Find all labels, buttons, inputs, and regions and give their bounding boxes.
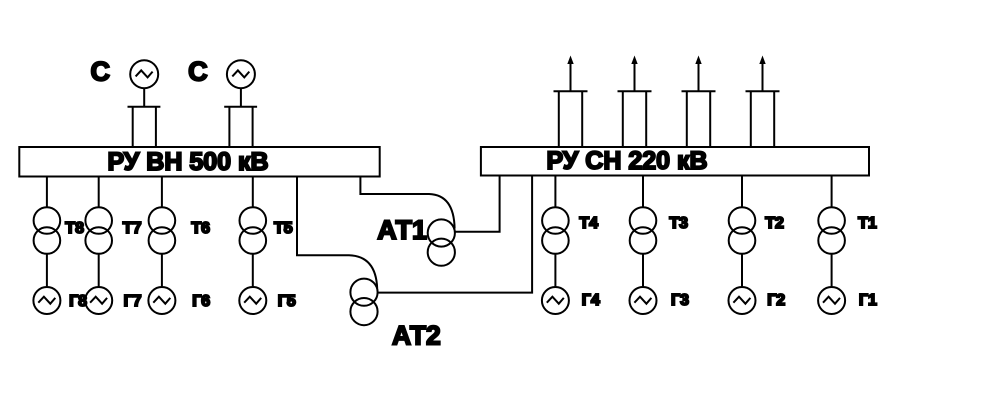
label Г4 bbox=[582, 292, 600, 309]
label Г1 bbox=[859, 292, 877, 309]
label Г8 bbox=[69, 293, 87, 310]
label Т7 bbox=[123, 220, 142, 237]
transformer Т4 (two-winding) bbox=[542, 207, 569, 254]
wire: transformer Т1 to generator Г1 bbox=[831, 254, 833, 288]
outgoing 220 kV line 1: bay frame bbox=[554, 91, 588, 148]
svg-text:Т4: Т4 bbox=[579, 215, 598, 232]
svg-text:С: С bbox=[91, 57, 111, 87]
wire: left bus to autotransformer АТ1 bbox=[360, 177, 454, 229]
generator Г8 circle bbox=[33, 287, 60, 314]
wire: transformer Т4 to generator Г4 bbox=[554, 254, 556, 288]
autotransformer АТ2 (two circles) bbox=[350, 279, 377, 326]
label Г6 bbox=[192, 293, 210, 310]
outgoing 220 kV line 3: bay frame bbox=[682, 91, 716, 148]
wire: transformer Т5 to generator Г5 bbox=[252, 254, 254, 288]
wire: outgoing line 3 with arrow bbox=[695, 56, 701, 92]
svg-text:АТ2: АТ2 bbox=[392, 321, 441, 351]
svg-text:Т5: Т5 bbox=[274, 220, 293, 237]
generator Г4 circle bbox=[542, 287, 569, 314]
label Г2 bbox=[767, 292, 785, 309]
wire: bus to transformer Т5 bbox=[252, 177, 254, 208]
wire: bus to transformer Т3 bbox=[642, 176, 644, 208]
bus РУ ВН 500 кВ (left 500 kV busbar) bbox=[19, 147, 379, 177]
wire: transformer Т8 to generator Г8 bbox=[46, 254, 48, 288]
outgoing 220 kV line 2: bay frame bbox=[618, 91, 652, 148]
transformer Т7 (two-winding) bbox=[85, 207, 112, 254]
svg-text:Т6: Т6 bbox=[191, 220, 210, 237]
system source C2 bay: frame to bus bbox=[224, 107, 257, 148]
generator Г2 circle bbox=[729, 287, 756, 314]
generator Г6 circle bbox=[148, 287, 175, 314]
transformer Т5 (two-winding) bbox=[240, 207, 267, 254]
wire: outgoing line 2 with arrow bbox=[631, 56, 637, 92]
wire: autotransformer АТ1 to right bus bbox=[455, 176, 500, 232]
wire: bus to transformer Т6 bbox=[161, 177, 163, 208]
label Т6 bbox=[191, 220, 210, 237]
generator Г1 circle bbox=[818, 287, 845, 314]
svg-text:Г7: Г7 bbox=[124, 293, 142, 310]
wire: stem from system C1 circle to frame bbox=[143, 88, 145, 107]
wire: outgoing line 1 with arrow bbox=[567, 56, 573, 92]
transformer Т1 (two-winding) bbox=[818, 207, 845, 254]
wire: bus to transformer Т8 bbox=[46, 177, 48, 208]
svg-text:Т2: Т2 bbox=[765, 215, 784, 232]
wire: left bus to autotransformer АТ2 bbox=[297, 177, 377, 289]
wire: autotransformer АТ2 to right bus bbox=[378, 176, 532, 293]
wire: bus to transformer Т4 bbox=[554, 176, 556, 208]
label АТ2 bbox=[392, 321, 441, 351]
bus РУ СН 220 кВ (right 220 kV busbar) bbox=[481, 147, 869, 176]
wire: bus to transformer Т2 bbox=[741, 176, 743, 208]
svg-text:С: С bbox=[188, 57, 208, 87]
svg-text:Г3: Г3 bbox=[671, 292, 689, 309]
label C (system 2) bbox=[188, 57, 208, 87]
svg-text:Т3: Т3 bbox=[669, 215, 688, 232]
label Т1 bbox=[858, 215, 877, 232]
label АТ1 bbox=[377, 215, 427, 245]
label Т3 bbox=[669, 215, 688, 232]
wire: outgoing line 4 with arrow bbox=[759, 56, 765, 92]
wire: transformer Т3 to generator Г3 bbox=[642, 254, 644, 288]
wire: transformer Т7 to generator Г7 bbox=[98, 254, 100, 288]
label Г5 bbox=[278, 293, 296, 310]
svg-text:Г2: Г2 bbox=[767, 292, 785, 309]
svg-text:Г1: Г1 bbox=[859, 292, 877, 309]
autotransformer АТ1 (two circles) bbox=[428, 219, 455, 265]
label Г3 bbox=[671, 292, 689, 309]
svg-text:РУ ВН 500 кВ: РУ ВН 500 кВ bbox=[107, 148, 268, 176]
svg-text:Т7: Т7 bbox=[123, 220, 142, 237]
outgoing 220 kV line 4: bay frame bbox=[746, 91, 780, 148]
transformer Т2 (two-winding) bbox=[729, 207, 756, 254]
svg-text:АТ1: АТ1 bbox=[377, 215, 427, 245]
label Т2 bbox=[765, 215, 784, 232]
svg-text:Т1: Т1 bbox=[858, 215, 877, 232]
svg-text:Т8: Т8 bbox=[65, 220, 84, 237]
transformer Т3 (two-winding) bbox=[630, 207, 657, 254]
wire: transformer Т6 to generator Г6 bbox=[161, 254, 163, 288]
transformer Т6 (two-winding) bbox=[149, 207, 176, 254]
wire: bus to transformer Т7 bbox=[98, 177, 100, 208]
system source C1 circle with AC symbol bbox=[130, 60, 158, 88]
wire: stem from system C2 circle to frame bbox=[240, 88, 242, 107]
wire: bus to transformer Т1 bbox=[831, 176, 833, 208]
svg-text:Г5: Г5 bbox=[278, 293, 296, 310]
wire: transformer Т2 to generator Г2 bbox=[741, 254, 743, 288]
generator Г3 circle bbox=[630, 287, 657, 314]
generator Г7 circle bbox=[85, 287, 112, 314]
label Т5 bbox=[274, 220, 293, 237]
generator Г5 circle bbox=[239, 287, 266, 314]
svg-text:Г4: Г4 bbox=[582, 292, 600, 309]
system source C1 bay: frame to bus bbox=[128, 107, 161, 148]
system source C2 circle with AC symbol bbox=[227, 60, 255, 88]
label Т8 bbox=[65, 220, 84, 237]
label C (system 1) bbox=[91, 57, 111, 87]
svg-text:Г6: Г6 bbox=[192, 293, 210, 310]
svg-text:РУ СН 220 кВ: РУ СН 220 кВ bbox=[546, 147, 707, 175]
label Г7 bbox=[124, 293, 142, 310]
label Т4 bbox=[579, 215, 598, 232]
transformer Т8 (two-winding) bbox=[34, 207, 61, 254]
